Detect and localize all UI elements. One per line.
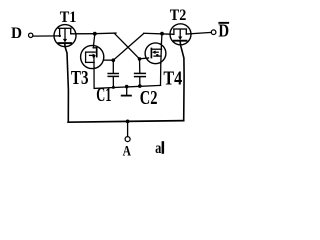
wire T2 to terminal	[186, 32, 211, 34]
node Qbar junction dot (T2 drain / T4 drain)	[160, 32, 164, 36]
svg-text:C2: C2	[140, 88, 158, 109]
node A tap dot	[126, 120, 130, 124]
transistor T2	[170, 24, 191, 45]
svg-text:D: D	[11, 25, 22, 42]
capacitor C2 top lead	[139, 59, 141, 73]
node C1 junction dot (left storage node)	[112, 58, 116, 62]
terminal D-bar	[211, 30, 216, 35]
transistor T3	[81, 45, 104, 68]
junction C1-rail	[112, 86, 115, 89]
right edge: T2 gate lead down	[180, 42, 184, 121]
svg-text:T3: T3	[71, 67, 89, 89]
wire node Q to cross-coupling	[95, 32, 116, 35]
wire node Qbar down to T4 drain	[160, 34, 163, 44]
svg-text:T4: T4	[163, 68, 182, 90]
svg-text:T1: T1	[60, 7, 77, 26]
T3 bottom lead down and rail to T4	[94, 62, 161, 88]
transistor T1	[54, 25, 76, 47]
svg-text:a: a	[155, 140, 161, 157]
capacitor C1 top lead	[112, 60, 114, 73]
svg-text:C1: C1	[96, 85, 111, 106]
label D-bar	[218, 21, 229, 41]
T3 source stub to left storage node	[103, 59, 113, 61]
T4 gate stub from right node	[140, 57, 149, 60]
cross-coupling diagonal B	[113, 33, 144, 60]
capacitor C1 bottom lead	[112, 77, 114, 88]
wire T1 drain to node	[71, 33, 95, 35]
left edge: T1 gate lead down	[65, 43, 69, 122]
wire D to T1	[33, 35, 60, 37]
T4 bottom lead	[160, 64, 162, 86]
capacitor C2 bottom lead	[139, 77, 141, 86]
label a)	[155, 140, 164, 157]
node C2 junction dot (right storage node)	[138, 57, 142, 61]
capacitor C2	[135, 73, 146, 76]
capacitor C1	[108, 74, 118, 77]
ground stub on common rail	[122, 85, 131, 96]
terminal D	[29, 33, 33, 37]
svg-text:T2: T2	[170, 5, 187, 24]
lead to terminal A	[127, 121, 129, 136]
node Q junction dot (T1 drain / T3 drain)	[93, 32, 97, 36]
svg-text:A: A	[123, 144, 132, 160]
wire node Q down to T3 drain	[93, 34, 95, 48]
junction C2-rail	[138, 84, 142, 88]
terminal A	[125, 137, 130, 142]
transistor T4	[145, 43, 166, 64]
cross-coupling diagonal A	[114, 33, 139, 58]
wire cross-coupling to T2 source	[144, 33, 174, 34]
bottom edge	[68, 121, 184, 123]
